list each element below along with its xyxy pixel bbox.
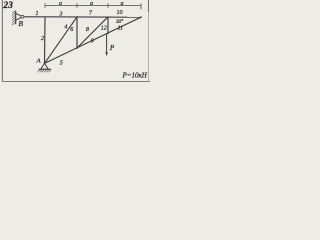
svg-text:P: P xyxy=(109,44,115,52)
node A junction dot xyxy=(44,62,46,64)
member 2 vertical C-A xyxy=(44,17,47,64)
node F tip dot xyxy=(140,16,142,18)
member 5,9,11 bottom chord A-F xyxy=(45,17,142,63)
node D junction dot xyxy=(76,16,78,18)
member 6 vertical D-G xyxy=(76,17,78,48)
svg-text:9: 9 xyxy=(91,39,94,45)
svg-text:11: 11 xyxy=(118,26,124,32)
force P arrow xyxy=(106,34,108,54)
dimension tick 4 xyxy=(140,3,142,9)
support A ground line xyxy=(38,68,51,70)
dimension tick 3 xyxy=(107,3,109,8)
dimension line xyxy=(45,4,141,6)
member 8 diagonal G-E xyxy=(77,17,108,48)
border right top dark segment xyxy=(147,0,149,12)
node E junction dot xyxy=(107,16,109,18)
svg-text:5: 5 xyxy=(60,61,63,67)
dimension tick 2 xyxy=(76,3,78,8)
svg-text:a: a xyxy=(90,1,93,7)
svg-text:4: 4 xyxy=(64,24,67,31)
member 4 diagonal A-D xyxy=(45,17,78,64)
border right xyxy=(148,0,150,82)
border bottom xyxy=(2,81,150,83)
border left xyxy=(1,0,3,82)
member 3,7,10 top chord C-F xyxy=(45,16,141,18)
svg-text:1: 1 xyxy=(36,11,39,17)
member 12 vertical E-H xyxy=(107,17,109,34)
svg-text:30°: 30° xyxy=(116,18,123,25)
dimension tick 1 xyxy=(44,3,46,8)
background paper xyxy=(0,0,150,85)
svg-text:a: a xyxy=(121,1,124,7)
member 1 top chord B-C xyxy=(24,16,45,18)
svg-text:B: B xyxy=(18,19,23,28)
force P arrowhead xyxy=(105,52,108,56)
node G junction dot xyxy=(76,47,78,49)
svg-text:3: 3 xyxy=(59,12,63,18)
svg-text:12: 12 xyxy=(101,25,107,31)
svg-text:6: 6 xyxy=(70,27,73,33)
pin triangle at B xyxy=(16,13,22,20)
pin circle at B xyxy=(21,15,24,18)
wall hatching at B xyxy=(12,11,16,25)
svg-text:8: 8 xyxy=(86,27,89,33)
svg-text:a: a xyxy=(59,1,62,7)
svg-text:P=10кН: P=10кН xyxy=(121,72,147,80)
svg-text:23: 23 xyxy=(2,1,13,11)
support A hatching xyxy=(38,69,52,72)
wall at B xyxy=(15,11,17,24)
node H junction dot xyxy=(107,33,109,35)
svg-text:10: 10 xyxy=(117,10,123,16)
support A triangle xyxy=(41,63,49,69)
svg-text:2: 2 xyxy=(41,36,44,42)
